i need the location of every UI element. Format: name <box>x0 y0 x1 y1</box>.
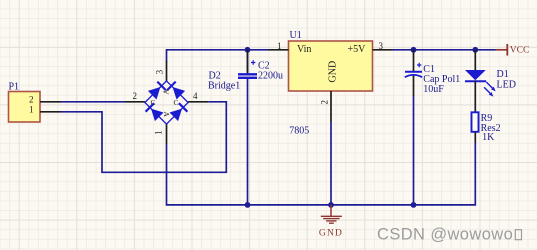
svg-text:+5V: +5V <box>348 44 367 55</box>
regulator U1 <box>269 41 393 122</box>
svg-text:1: 1 <box>29 105 34 115</box>
power port VCC <box>496 44 530 56</box>
svg-text:GND: GND <box>328 61 339 83</box>
svg-text:U1: U1 <box>290 30 302 41</box>
wire U1 pin2 to GND bus <box>330 122 332 205</box>
svg-text:3: 3 <box>379 41 384 51</box>
svg-text:2: 2 <box>320 100 330 105</box>
svg-text:P1: P1 <box>9 82 20 93</box>
svg-text:C: C <box>151 98 156 107</box>
D2 diode bottom-left <box>151 109 164 122</box>
U1 pin 1 <box>269 49 289 51</box>
capacitor C2 <box>238 50 257 78</box>
svg-text:Vin: Vin <box>297 44 311 55</box>
wire C2 top branch <box>247 50 249 74</box>
svg-text:1K: 1K <box>482 132 495 143</box>
junction at GND symbol <box>328 202 334 208</box>
wire net AC1: P1 pin2 to D2 pin2 <box>61 101 125 103</box>
D2 diode top-left <box>148 87 161 100</box>
svg-text:D1: D1 <box>497 69 509 80</box>
D2 diode top-right <box>173 87 186 100</box>
wire GND bus bottom <box>167 143 476 205</box>
wire C2 bottom branch <box>247 78 249 205</box>
U1 pin 2 <box>330 91 332 122</box>
D2 pin 3 <box>166 61 168 81</box>
svg-text:4: 4 <box>193 91 198 101</box>
svg-text:Bridge1: Bridge1 <box>208 80 240 91</box>
svg-text:A: A <box>162 112 171 118</box>
bridge rectifier D2 <box>125 61 208 144</box>
wire net +5V: U1 pin3 to VCC <box>393 49 496 51</box>
D1 light arrow 1 <box>486 82 493 89</box>
svg-text:CSDN @wowowo: CSDN @wowowo <box>377 226 513 244</box>
D2 pin 1 <box>166 124 168 144</box>
svg-text:2: 2 <box>29 95 34 105</box>
U1 pin 3 <box>373 49 393 51</box>
junction at C1 top <box>411 47 417 53</box>
connector P1 <box>9 92 62 123</box>
capacitor C1 <box>405 50 422 96</box>
ground symbol GND <box>319 205 343 239</box>
watermark CSDN <box>377 226 522 244</box>
svg-text:2: 2 <box>133 91 138 101</box>
svg-text:VCC: VCC <box>510 46 530 56</box>
wire C1 bottom branch <box>413 96 415 205</box>
LED D1 <box>465 50 496 112</box>
wire net AC2: P1 pin1 to D2 pin4 <box>61 102 226 173</box>
junction at D1 top <box>472 47 478 53</box>
wire net VIN: D2 pin3 to U1 pin1 <box>167 50 269 62</box>
junction at C1 bottom <box>411 202 417 208</box>
D2 pin 4 <box>188 101 208 103</box>
svg-text:3: 3 <box>155 69 165 74</box>
svg-text:LED: LED <box>497 79 516 90</box>
svg-text:1: 1 <box>154 131 164 136</box>
D1 light arrow 2 <box>484 87 491 94</box>
svg-text:A: A <box>162 89 171 95</box>
svg-text:GND: GND <box>319 228 343 238</box>
svg-text:10uF: 10uF <box>423 84 444 95</box>
svg-text:C: C <box>174 98 179 107</box>
D2 diamond body <box>145 81 188 124</box>
svg-text:7805: 7805 <box>289 126 309 137</box>
resistor R9 <box>472 112 479 143</box>
junction at C2 top <box>245 47 251 53</box>
svg-text:2200u: 2200u <box>258 70 283 81</box>
D2 diode bottom-right <box>170 109 183 122</box>
svg-text:1: 1 <box>277 41 282 51</box>
D2 pin 2 <box>125 101 145 103</box>
junction at C2 bottom <box>245 202 251 208</box>
